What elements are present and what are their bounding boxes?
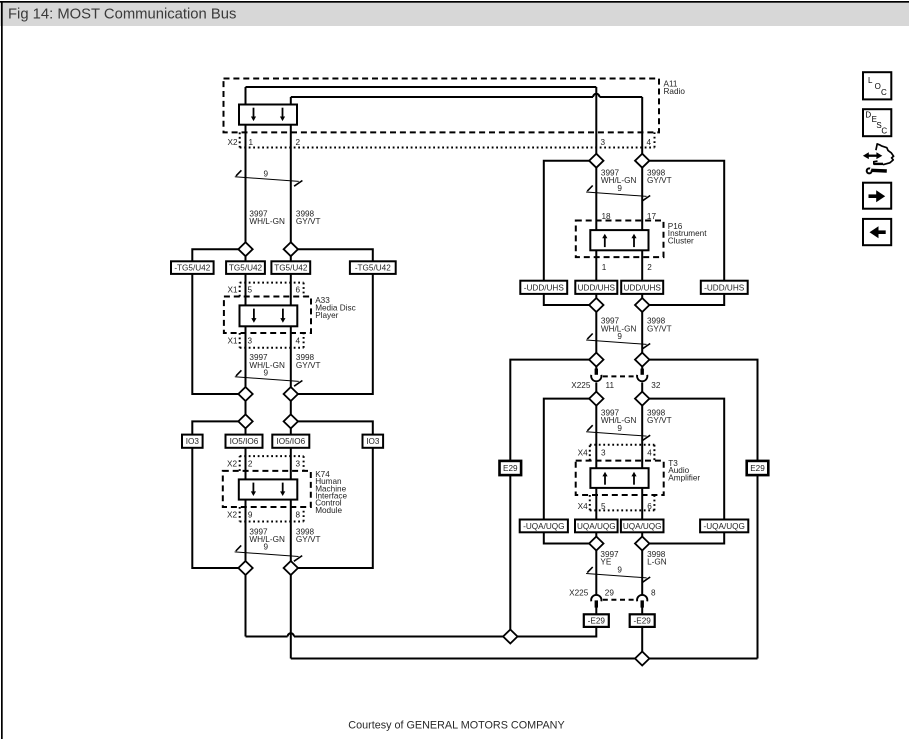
component T3 internal block with arrows bbox=[590, 468, 648, 488]
net label -UDD/UHS far right bbox=[701, 281, 748, 294]
svg-text:8: 8 bbox=[296, 510, 301, 519]
wire bottom splice line 3997 with hop over 3998 bbox=[246, 633, 597, 636]
net label IO3 far right bbox=[363, 435, 384, 448]
svg-text:X2: X2 bbox=[227, 138, 237, 147]
svg-text:4: 4 bbox=[647, 138, 652, 147]
wire bus 3998 horizontal inside A11 with hop over 3997 bbox=[291, 94, 642, 97]
svg-text:IO5/IO6: IO5/IO6 bbox=[276, 437, 305, 446]
svg-text:E29: E29 bbox=[750, 464, 765, 473]
label T3 Audio Amplifier bbox=[668, 459, 700, 483]
net label UQA/UQG on 3997 bbox=[575, 520, 618, 533]
svg-text:9: 9 bbox=[264, 369, 269, 378]
svg-text:4: 4 bbox=[647, 449, 652, 458]
label wire 3997 WH/L-GN above T3 bbox=[601, 408, 637, 425]
connector X4 top of T3 dotted box bbox=[590, 445, 655, 461]
net label -TG5/U42 far right bbox=[350, 261, 396, 274]
splice node 3998 below A33 bbox=[284, 387, 298, 401]
label wire 3998 L-GN bbox=[647, 550, 667, 567]
svg-text:9: 9 bbox=[617, 566, 622, 575]
splice node left 3997 above TG5 bbox=[238, 242, 252, 256]
svg-text:1: 1 bbox=[249, 138, 254, 147]
component T3 dashed box bbox=[576, 461, 664, 495]
splice node 3998 below UDD row bbox=[635, 298, 649, 312]
twisted pair symbol above T3 bbox=[586, 424, 650, 441]
connector X225 interface dashed line lower bbox=[603, 599, 636, 601]
svg-text:11: 11 bbox=[606, 381, 615, 390]
label wire 3998 GY/VT above P16 bbox=[647, 169, 672, 186]
net label -UDD/UHS far left bbox=[520, 281, 567, 294]
svg-text:IO3: IO3 bbox=[186, 437, 200, 446]
net label E29 left bbox=[500, 461, 522, 475]
splice node on E29 left branch bottom bbox=[503, 630, 517, 644]
title bar bbox=[0, 3, 909, 26]
icon dog-head with double arrow and wrench bbox=[863, 144, 894, 175]
connector X1 top of A33 dotted box bbox=[240, 283, 304, 297]
wire 3997 left vertical (radio X2-1 down to bottom corner) bbox=[245, 87, 247, 637]
net label UQA/UQG on 3998 bbox=[621, 520, 664, 533]
svg-text:Module: Module bbox=[315, 506, 342, 515]
net label E29 right bbox=[747, 461, 769, 475]
svg-text:TG5/U42: TG5/U42 bbox=[229, 264, 263, 273]
icon button LOC bbox=[863, 72, 891, 99]
svg-text:5: 5 bbox=[601, 502, 606, 511]
net label IO5/IO6 on 3998 bbox=[272, 435, 309, 448]
wire 3997 below -E29 to splice line bbox=[595, 627, 597, 638]
net label -E29 left bbox=[584, 614, 609, 627]
wire 3997 stub below X225-29 to -E29 bbox=[595, 607, 597, 615]
splice node 3998 below radio right bbox=[635, 154, 649, 168]
label wire 3998 GY/VT below A33 bbox=[296, 353, 321, 370]
svg-text:5: 5 bbox=[248, 285, 253, 294]
window left border bbox=[1, 1, 3, 739]
splice node 3998 below K74 bbox=[284, 561, 298, 575]
wire bottom splice line 3998 bbox=[291, 658, 758, 660]
connector X225 pin 11 symbol bbox=[591, 369, 601, 382]
net label -E29 right bbox=[630, 614, 655, 627]
svg-text:YE: YE bbox=[600, 558, 611, 567]
svg-text:IO5/IO6: IO5/IO6 bbox=[230, 437, 259, 446]
svg-text:UQA/UQG: UQA/UQG bbox=[623, 522, 662, 531]
wire left frame TG5 loop right bbox=[298, 249, 373, 394]
svg-text:-TG5/U42: -TG5/U42 bbox=[355, 264, 391, 273]
net label IO5/IO6 on 3997 bbox=[226, 435, 263, 448]
svg-text:9: 9 bbox=[617, 184, 622, 193]
svg-text:GY/VT: GY/VT bbox=[647, 324, 672, 333]
wire right frame UQA loop right bbox=[649, 399, 724, 544]
component A33 dashed box bbox=[224, 297, 311, 334]
splice node 3997 below UDD row bbox=[589, 298, 603, 312]
wire left frame IO loop right bbox=[298, 421, 373, 568]
splice node 3997 below radio right bbox=[589, 154, 603, 168]
window top border bbox=[0, 1, 909, 3]
svg-text:Courtesy of GENERAL MOTORS COM: Courtesy of GENERAL MOTORS COMPANY bbox=[348, 719, 564, 731]
svg-text:2: 2 bbox=[248, 460, 253, 469]
svg-text:UDD/UHS: UDD/UHS bbox=[624, 283, 662, 292]
wire E29 branch right (X225 splice down to bottom line) bbox=[649, 360, 757, 659]
svg-text:-UDD/UHS: -UDD/UHS bbox=[524, 283, 565, 292]
connector X225 pin 8 symbol bbox=[637, 595, 647, 608]
label A11 Radio bbox=[664, 79, 686, 96]
splice node 3997 below UQA row bbox=[589, 537, 603, 551]
splice node 3998 above IO row bbox=[284, 414, 298, 428]
svg-text:3: 3 bbox=[248, 337, 253, 346]
wire 3997 right vertical (radio X2-3 down to X225 pin 29) bbox=[595, 87, 597, 370]
label wire 3998 GY/VT above X225 bbox=[647, 317, 672, 334]
label wire 3997 WH/L-GN above X225 bbox=[601, 317, 637, 334]
connector X4 bottom of T3 dotted box bbox=[590, 495, 655, 510]
svg-text:WH/L-GN: WH/L-GN bbox=[249, 217, 285, 226]
splice node 3997 below K74 bbox=[238, 561, 252, 575]
svg-text:9: 9 bbox=[264, 169, 269, 178]
connector X2 of A11 dotted box bbox=[240, 132, 655, 147]
svg-text:UQA/UQG: UQA/UQG bbox=[577, 522, 616, 531]
net label -UQA/UQG far left bbox=[520, 520, 568, 533]
svg-text:3: 3 bbox=[296, 460, 301, 469]
svg-text:GY/VT: GY/VT bbox=[296, 217, 321, 226]
splice node 3997 above X225 bbox=[589, 353, 603, 367]
twisted pair symbol above X225 bbox=[586, 332, 650, 349]
svg-text:O: O bbox=[875, 82, 881, 91]
splice node on 3998 bottom line bbox=[635, 652, 649, 666]
component A11 Radio internal block with arrows bbox=[239, 105, 297, 125]
component A33 internal block with arrows bbox=[240, 305, 298, 326]
connector X225 pin 29 symbol bbox=[591, 595, 601, 608]
svg-text:X1: X1 bbox=[227, 285, 237, 294]
splice node 3998 above X225 bbox=[635, 353, 649, 367]
svg-text:1: 1 bbox=[602, 263, 607, 272]
label wire 3997 WH/L-GN above P16 bbox=[601, 169, 637, 186]
svg-text:9: 9 bbox=[264, 543, 269, 552]
splice node 3997 below A33 bbox=[238, 387, 252, 401]
svg-text:-TG5/U42: -TG5/U42 bbox=[174, 264, 210, 273]
svg-text:L: L bbox=[868, 76, 873, 85]
svg-text:-UQA/UQG: -UQA/UQG bbox=[523, 522, 564, 531]
svg-text:L-GN: L-GN bbox=[647, 558, 667, 567]
svg-text:Radio: Radio bbox=[664, 87, 686, 96]
svg-text:X4: X4 bbox=[578, 502, 588, 511]
net label TG5/U42 on 3997 bbox=[226, 261, 265, 274]
svg-text:TG5/U42: TG5/U42 bbox=[274, 264, 308, 273]
svg-text:GY/VT: GY/VT bbox=[647, 416, 672, 425]
label wire 3997 WH/L-GN below radio bbox=[249, 209, 285, 226]
twisted pair symbol below K74 bbox=[235, 543, 303, 562]
wire left frame IO loop left bbox=[192, 421, 238, 568]
label A33 Media Disc Player bbox=[315, 296, 356, 320]
net label -TG5/U42 far left bbox=[171, 261, 214, 274]
svg-text:-UQA/UQG: -UQA/UQG bbox=[703, 522, 744, 531]
twisted pair symbol above P16 bbox=[586, 184, 650, 201]
icon button next arrow bbox=[863, 183, 891, 209]
connector X225 pin 32 symbol bbox=[637, 369, 647, 382]
svg-text:2: 2 bbox=[296, 138, 301, 147]
component P16 internal block with arrows bbox=[590, 230, 648, 250]
label wire 3997 YE bbox=[600, 550, 619, 567]
wire 3998 left vertical (radio X2-2 down to bottom corner) bbox=[290, 97, 292, 659]
svg-text:X1: X1 bbox=[227, 337, 237, 346]
wire right frame UDD loop right bbox=[649, 161, 724, 305]
svg-text:-E29: -E29 bbox=[634, 617, 652, 626]
icon button back arrow bbox=[863, 219, 891, 245]
svg-text:32: 32 bbox=[651, 381, 661, 390]
svg-text:D: D bbox=[865, 111, 871, 120]
label wire 3998 GY/VT below K74 bbox=[296, 527, 321, 544]
net label -UQA/UQG far right bbox=[700, 520, 748, 533]
svg-text:Cluster: Cluster bbox=[668, 237, 694, 246]
svg-text:9: 9 bbox=[617, 332, 622, 341]
svg-text:6: 6 bbox=[647, 502, 652, 511]
label K74 Human Machine Interface Control Module bbox=[315, 470, 347, 515]
component K74 internal block with arrows bbox=[239, 479, 297, 499]
svg-text:C: C bbox=[881, 88, 887, 97]
svg-text:GY/VT: GY/VT bbox=[296, 535, 321, 544]
connector X1 bottom of A33 dotted box bbox=[240, 333, 304, 348]
icon button DESC bbox=[863, 109, 891, 136]
svg-text:Fig 14: MOST Communication Bus: Fig 14: MOST Communication Bus bbox=[8, 7, 236, 23]
label wire 3997 WH/L-GN below K74 bbox=[249, 527, 285, 544]
svg-text:29: 29 bbox=[605, 589, 615, 598]
splice node 3997 above IO row bbox=[238, 414, 252, 428]
svg-text:X225: X225 bbox=[571, 381, 591, 390]
splice node 3998 below UQA row bbox=[635, 537, 649, 551]
wire 3998 stub below X225-8 to -E29 bbox=[641, 607, 643, 615]
twisted pair symbol below radio left bbox=[235, 169, 303, 186]
svg-text:-E29: -E29 bbox=[588, 617, 606, 626]
splice node 3998 below X225 bbox=[635, 392, 649, 406]
svg-text:X2: X2 bbox=[227, 460, 237, 469]
svg-text:IO3: IO3 bbox=[366, 437, 380, 446]
wire 3998 right vertical (radio X2-4 down to X225 pin 8) bbox=[641, 97, 643, 370]
svg-text:6: 6 bbox=[296, 285, 301, 294]
wire 3998 right vertical below X225-32 bbox=[641, 383, 643, 596]
label wire 3997 WH/L-GN below A33 bbox=[249, 353, 285, 370]
wire bus 3997 horizontal inside A11 bbox=[246, 86, 597, 88]
net label UDD/UHS on 3997 bbox=[575, 281, 617, 294]
svg-text:GY/VT: GY/VT bbox=[647, 176, 672, 185]
net label IO3 far left bbox=[182, 435, 203, 448]
svg-text:E29: E29 bbox=[503, 464, 518, 473]
wire right frame UDD loop left bbox=[544, 161, 590, 305]
wire 3997 right vertical below X225-11 bbox=[595, 383, 597, 596]
splice node left 3998 above TG5 bbox=[284, 242, 298, 256]
splice node 3997 below X225 bbox=[589, 392, 603, 406]
svg-text:2: 2 bbox=[647, 263, 652, 272]
svg-text:UDD/UHS: UDD/UHS bbox=[578, 283, 616, 292]
svg-text:-UDD/UHS: -UDD/UHS bbox=[704, 283, 745, 292]
svg-text:X4: X4 bbox=[578, 449, 588, 458]
net label UDD/UHS on 3998 bbox=[621, 281, 663, 294]
component A11 Radio dashed box bbox=[224, 79, 660, 133]
svg-text:X225: X225 bbox=[569, 589, 589, 598]
component K74 dashed box bbox=[223, 471, 311, 507]
twisted pair symbol above bottom X225 bbox=[586, 566, 650, 583]
svg-text:3: 3 bbox=[601, 449, 606, 458]
twisted pair symbol below A33 bbox=[235, 369, 303, 387]
component P16 dashed box bbox=[576, 221, 664, 258]
svg-text:Player: Player bbox=[315, 311, 338, 320]
label wire 3998 GY/VT above T3 bbox=[647, 408, 672, 425]
svg-text:4: 4 bbox=[296, 337, 301, 346]
wire right frame UQA loop left bbox=[544, 399, 590, 544]
svg-text:9: 9 bbox=[248, 510, 253, 519]
label wire 3998 GY/VT below radio bbox=[296, 209, 321, 226]
wire 3998 below -E29 to splice line bbox=[641, 627, 643, 660]
svg-text:9: 9 bbox=[617, 424, 622, 433]
wire left frame TG5 loop left bbox=[192, 249, 238, 394]
svg-text:8: 8 bbox=[651, 589, 656, 598]
svg-text:Amplifier: Amplifier bbox=[668, 474, 700, 483]
net label TG5/U42 on 3998 bbox=[271, 261, 310, 274]
svg-text:3: 3 bbox=[601, 138, 606, 147]
wire E29 branch left (X225 splice down to bottom splice) bbox=[510, 360, 589, 637]
svg-text:X2: X2 bbox=[227, 510, 237, 519]
svg-text:C: C bbox=[881, 127, 887, 136]
svg-text:GY/VT: GY/VT bbox=[296, 361, 321, 370]
connector X2 bottom of K74 dotted box bbox=[240, 507, 304, 522]
connector X225 interface dashed line upper bbox=[603, 375, 636, 377]
connector X2 top of K74 dotted box bbox=[240, 456, 304, 471]
label P16 Instrument Cluster bbox=[668, 222, 707, 246]
